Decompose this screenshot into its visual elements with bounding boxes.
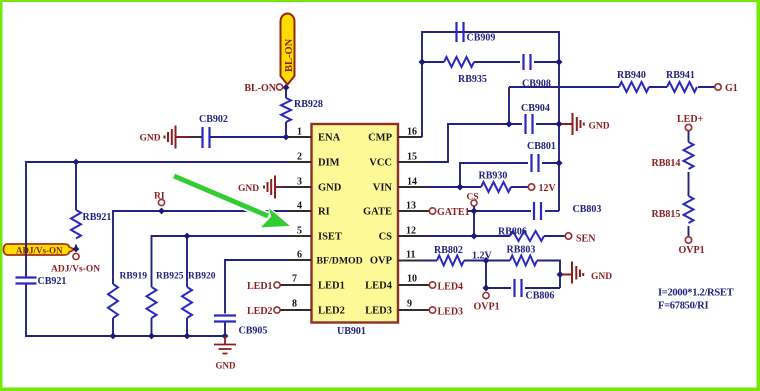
wire CMP net vertical and CB909 top loop (422, 32, 559, 211)
svg-text:CB905: CB905 (239, 326, 268, 337)
svg-text:GND: GND (216, 361, 237, 371)
wire RB815 to OVP1 (688, 226, 690, 237)
svg-text:4: 4 (297, 201, 302, 212)
svg-text:GND: GND (589, 122, 610, 132)
svg-text:GND: GND (318, 183, 342, 194)
svg-text:OVP1: OVP1 (679, 245, 705, 256)
svg-text:RB940: RB940 (617, 70, 646, 81)
svg-text:CB801: CB801 (527, 141, 556, 152)
annotation green arrow (174, 176, 292, 228)
svg-text:I=2000*1.2/RSET: I=2000*1.2/RSET (658, 288, 734, 299)
wire CS vertical (473, 206, 475, 236)
ground earth below CB905 (214, 336, 236, 354)
svg-text:G1: G1 (725, 83, 738, 94)
svg-text:RB930: RB930 (479, 171, 508, 182)
node junctions CB904 row (506, 121, 513, 128)
node junction 1.2V (483, 257, 490, 264)
svg-text:RI: RI (318, 207, 330, 218)
svg-text:LED+: LED+ (677, 114, 704, 125)
capacitor CB908 (524, 54, 531, 70)
ground symbol at pin3/GND (264, 176, 283, 199)
resistor RB921 (75, 162, 77, 249)
net flag BL-ON vertical pill (281, 14, 296, 85)
node dot below BL-ON flag (283, 84, 290, 91)
resistor RB815 (684, 196, 694, 223)
svg-text:GATE: GATE (363, 207, 392, 218)
svg-text:F=67850/RI: F=67850/RI (658, 301, 708, 312)
resistor RB935 (444, 57, 474, 67)
svg-text:CB902: CB902 (199, 114, 228, 125)
resistor RB806 (510, 231, 544, 241)
node junctions RB935 row (419, 59, 426, 66)
svg-text:OVP1: OVP1 (474, 302, 500, 313)
svg-text:2: 2 (297, 152, 302, 163)
svg-text:BF/DMOD: BF/DMOD (317, 256, 363, 267)
svg-text:1.2V: 1.2V (472, 251, 493, 262)
capacitor CB902 (203, 127, 210, 148)
svg-text:RB806: RB806 (498, 227, 527, 238)
terminal RI open circle (158, 199, 164, 205)
svg-text:VCC: VCC (369, 158, 392, 169)
svg-text:15: 15 (407, 152, 417, 163)
node junction GATE1 row (471, 208, 478, 215)
pin stubs left side (281, 137, 312, 310)
terminal 12V (528, 184, 534, 190)
wire VIN / RB930 row (423, 186, 528, 188)
svg-text:RB941: RB941 (666, 70, 695, 81)
svg-text:RB803: RB803 (507, 245, 536, 256)
resistor RB802 (437, 256, 464, 266)
IC UB901 (312, 124, 399, 323)
resistor RB920 (186, 318, 188, 336)
ground symbol right of CB904 (561, 113, 584, 135)
node junctions on bottom rail (110, 333, 117, 340)
node junction ISET/RB920 (184, 233, 191, 240)
svg-text:11: 11 (406, 250, 415, 261)
svg-text:ENA: ENA (318, 133, 341, 144)
svg-text:RB802: RB802 (434, 245, 463, 256)
svg-text:ISET: ISET (318, 232, 342, 243)
wire LED+ to RB814 (688, 131, 690, 142)
resistor RB925 (151, 318, 153, 336)
svg-text:CB904: CB904 (521, 103, 550, 114)
wire VCC to CB904 row (423, 124, 561, 162)
capacitor CB801 (532, 154, 539, 172)
svg-text:LED1: LED1 (247, 281, 273, 292)
svg-text:LED3: LED3 (438, 307, 464, 318)
capacitor CB921 (16, 278, 37, 284)
wire pin6/BF net to CB905 (225, 260, 289, 336)
terminal BL-ON open circle (276, 84, 282, 90)
node RI junction (158, 208, 165, 215)
svg-text:7: 7 (292, 274, 297, 285)
svg-text:LED2: LED2 (247, 306, 273, 317)
wire CB803 to right vertical (545, 210, 559, 212)
node junction CB806 left (483, 285, 490, 292)
resistor RB814 (684, 142, 694, 169)
svg-text:ADJ/Vs-ON: ADJ/Vs-ON (51, 265, 100, 275)
wire pin5/ISET net (152, 236, 290, 287)
svg-text:CB803: CB803 (573, 204, 602, 215)
terminal OVP1 bottom (483, 292, 489, 298)
svg-text:CB806: CB806 (526, 291, 555, 302)
net flag ADJ/Vs-ON yellow highlight shape (4, 244, 75, 255)
terminal ADJ/Vs-ON open circle (73, 253, 79, 259)
svg-text:10: 10 (407, 274, 417, 285)
svg-text:RB919: RB919 (120, 272, 148, 282)
svg-text:RB815: RB815 (652, 209, 681, 220)
node junction VIN (457, 184, 464, 191)
wire G1 net (509, 87, 715, 124)
svg-text:UB901: UB901 (337, 326, 366, 337)
svg-text:12V: 12V (539, 183, 557, 194)
terminal OVP1 right column (685, 237, 691, 243)
svg-text:RI: RI (154, 192, 165, 202)
wire pin2/DIM net horizontal and left rail (26, 162, 289, 336)
svg-text:8: 8 (292, 299, 297, 310)
capacitor CB905 (214, 316, 236, 322)
svg-text:CB921: CB921 (38, 276, 67, 287)
svg-text:RB928: RB928 (294, 99, 323, 110)
svg-text:RB920: RB920 (188, 272, 216, 282)
pin numbers left (292, 127, 302, 310)
resistor RB919 (112, 318, 114, 336)
wire RB814 to RB815 (688, 172, 690, 196)
pin numbers right (406, 127, 417, 310)
svg-text:RB935: RB935 (458, 74, 487, 85)
node junction pin1/RB928 (283, 134, 290, 141)
wire CB902 to pin1 (210, 136, 289, 138)
svg-text:GATE1: GATE1 (437, 207, 470, 218)
svg-text:VIN: VIN (373, 183, 393, 194)
ground symbol at pin1 net (CB902) (165, 126, 190, 149)
svg-text:14: 14 (407, 177, 417, 188)
node junction pin2 wire / RB921 (73, 159, 80, 166)
svg-text:DIM: DIM (318, 158, 340, 169)
wire GND to CB902 (189, 136, 202, 138)
svg-text:OVP: OVP (370, 256, 393, 267)
node junction GND tap (557, 271, 564, 278)
svg-text:LED1: LED1 (318, 281, 345, 292)
terminal SEN (565, 233, 571, 239)
terminal LED2 (274, 307, 280, 313)
wire GATE1 row to CB803 (467, 210, 531, 212)
wire pin4/RI net (113, 211, 289, 284)
svg-text:RB814: RB814 (652, 158, 681, 169)
svg-text:GND: GND (591, 272, 612, 282)
node junction CS row (471, 233, 478, 240)
terminal LED3 (429, 307, 435, 313)
wire pin3 (283, 186, 289, 188)
svg-text:LED4: LED4 (438, 282, 464, 293)
ground symbol right of RB803 (562, 262, 583, 284)
wire OVP row (422, 261, 560, 289)
node junction CB801 right (556, 160, 563, 167)
svg-text:CMP: CMP (368, 133, 392, 144)
svg-text:LED4: LED4 (365, 281, 393, 292)
resistor RB940 (619, 82, 649, 92)
resistor RB803 (510, 256, 537, 266)
terminal GATE1 (429, 208, 435, 214)
svg-text:CS: CS (379, 232, 393, 243)
svg-text:5: 5 (297, 226, 302, 237)
terminal G1 (715, 84, 721, 90)
capacitor CB806 (515, 279, 522, 297)
capacitor CB904 (526, 114, 533, 134)
svg-text:CB909: CB909 (467, 33, 496, 44)
wire CB801 row (460, 163, 559, 187)
svg-text:12: 12 (406, 226, 416, 237)
svg-text:16: 16 (407, 127, 417, 138)
capacitor CB909 (457, 22, 464, 42)
svg-text:LED3: LED3 (365, 306, 392, 317)
resistor RB941 (667, 82, 697, 92)
svg-text:ADJ/Vs-ON: ADJ/Vs-ON (16, 245, 63, 255)
svg-text:1: 1 (297, 127, 302, 138)
svg-text:9: 9 (407, 299, 412, 310)
svg-text:BL-ON: BL-ON (244, 83, 276, 94)
wire CS/SEN row (422, 235, 565, 237)
resistor RB930 (481, 182, 511, 192)
svg-text:BL-ON: BL-ON (284, 38, 295, 72)
resistor RB928 vertical (285, 88, 287, 138)
svg-text:13: 13 (406, 201, 416, 212)
svg-text:LED2: LED2 (318, 306, 345, 317)
capacitor CB803 (534, 202, 541, 220)
svg-text:GND: GND (238, 184, 259, 194)
terminal LED1 (274, 282, 280, 288)
svg-text:GND: GND (140, 134, 161, 144)
svg-text:3: 3 (297, 177, 302, 188)
svg-text:RB925: RB925 (156, 272, 184, 282)
svg-text:6: 6 (297, 250, 302, 261)
pin stubs right side (398, 137, 429, 310)
svg-text:RB921: RB921 (83, 212, 112, 223)
svg-text:SEN: SEN (576, 234, 596, 245)
node ADJ/Vs-ON junction (73, 246, 80, 253)
terminal LED4 (429, 282, 435, 288)
